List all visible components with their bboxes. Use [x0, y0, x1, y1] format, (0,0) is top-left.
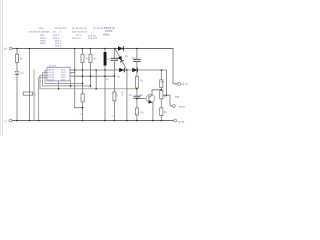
svg-text:xxxx: xxxx — [40, 41, 46, 45]
svg-text:xx xx: xx xx — [179, 105, 186, 108]
svg-text:xxx: xxx — [175, 94, 180, 98]
svg-text:xxx x: xxx x — [55, 44, 62, 48]
svg-text:xxx: xxx — [112, 114, 117, 118]
svg-text:(-): (-) — [4, 119, 7, 123]
svg-text:xXXx: xXXx — [103, 32, 110, 36]
svg-text:xx xx x: xx xx x — [72, 36, 81, 40]
svg-text:xxx xxx: xxx xxx — [88, 36, 98, 40]
svg-text:xx xx: xx xx — [178, 120, 185, 123]
svg-text:(+): (+) — [4, 47, 7, 51]
svg-text:xxxxx: xxxxx — [48, 79, 55, 81]
svg-text:ICxxxx: ICxxxx — [49, 65, 57, 68]
svg-text:xx xx: xx xx — [181, 82, 188, 86]
